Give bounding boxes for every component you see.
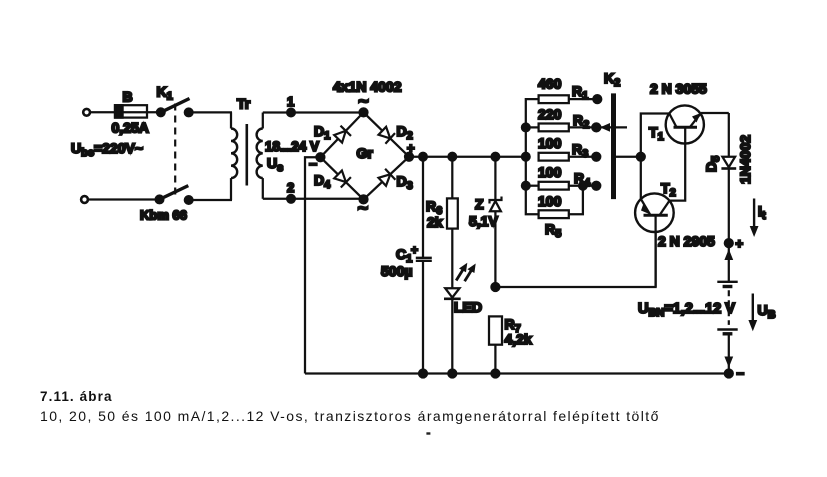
svg-text:100: 100: [538, 193, 562, 209]
resistor R4 100: [526, 164, 597, 190]
wire minus branch down: [305, 157, 320, 373]
svg-text:Kbm 66: Kbm 66: [140, 208, 187, 223]
battery dashed middle: [728, 290, 730, 325]
node bridge left minus: [309, 153, 324, 172]
svg-text:~: ~: [358, 91, 369, 111]
LED: [444, 263, 482, 374]
svg-text:2: 2: [287, 180, 294, 195]
switch K2 wiper arrow: [600, 123, 627, 132]
wire bottom to transformer: [189, 199, 232, 201]
node bridge right plus: [405, 141, 415, 161]
svg-text:+: +: [736, 236, 744, 251]
svg-text:100: 100: [538, 135, 562, 151]
resistor R6: [426, 153, 458, 288]
resistor bank bus: [526, 99, 539, 214]
node bus plus rail: [522, 153, 530, 161]
svg-text:D2: D2: [397, 123, 413, 142]
wire secondary bottom to bridge: [263, 198, 364, 200]
svg-text:1: 1: [287, 94, 294, 109]
wire secondary top to bridge: [263, 111, 364, 113]
node 1: [287, 94, 295, 116]
svg-text:Tr: Tr: [237, 96, 251, 112]
node LED bottom: [448, 370, 456, 378]
svg-text:100: 100: [538, 164, 562, 180]
stray mark: [426, 432, 430, 434]
resistor R3 100: [538, 135, 596, 161]
wire T1 base down: [670, 127, 686, 200]
wire T2 emitter from junction: [640, 157, 642, 199]
svg-text:+: +: [407, 141, 415, 156]
transistor T1: [649, 81, 707, 144]
svg-text:Us: Us: [267, 155, 283, 174]
node input terminal top: [83, 109, 90, 116]
transformer Tr primary: [231, 96, 251, 201]
node Z R7 T2 junction: [491, 283, 499, 291]
node battery plus: [725, 236, 744, 251]
resistor R2 220: [538, 106, 596, 131]
svg-text:0,25A: 0,25A: [112, 120, 149, 136]
wire: [90, 111, 115, 113]
switch K1 bottom pole Kbm66: [140, 186, 193, 223]
battery cell 2: [717, 330, 737, 334]
node input terminal bottom: [81, 196, 88, 203]
diode D3: [379, 169, 413, 192]
svg-text:It: It: [758, 203, 766, 222]
bridge rectifier Gr diamond: [320, 79, 409, 200]
wire with down arrow to minus node: [724, 334, 733, 374]
resistor R5 100: [538, 186, 583, 240]
svg-text:1N4002: 1N4002: [737, 135, 753, 184]
node output junction: [637, 153, 645, 161]
resistor R1 460: [526, 76, 598, 128]
switch K2 bar: [604, 70, 620, 199]
switch gang dashed link: [174, 104, 176, 197]
fuse B: [112, 89, 161, 136]
node bridge top ~: [358, 91, 369, 117]
svg-text:−: −: [737, 366, 745, 381]
diode D4: [314, 171, 351, 192]
svg-text:R5: R5: [545, 221, 561, 240]
svg-text:T1: T1: [649, 124, 664, 143]
node 2: [287, 180, 295, 203]
transformer core: [246, 124, 249, 186]
node R7 bottom: [491, 370, 499, 378]
svg-text:2k: 2k: [427, 214, 443, 230]
svg-text:D4: D4: [314, 172, 331, 191]
svg-text:18...24 V: 18...24 V: [265, 139, 319, 154]
node bus R4: [522, 182, 530, 190]
svg-text:UBN=1,2...12 V: UBN=1,2...12 V: [638, 301, 735, 319]
wire plus rail: [409, 156, 526, 158]
svg-text:D5: D5: [703, 156, 722, 172]
diode D1: [314, 123, 351, 143]
svg-text:220: 220: [538, 106, 562, 122]
svg-text:K2: K2: [604, 70, 620, 89]
wire K2 output: [616, 156, 641, 158]
svg-text:500µ: 500µ: [381, 263, 412, 279]
svg-text:K1: K1: [157, 84, 173, 103]
battery cell 1: [717, 282, 737, 287]
node K2 contact 3: [592, 153, 600, 161]
wire T2 base down: [654, 215, 656, 287]
zener Z: [469, 153, 502, 287]
svg-text:5,1V: 5,1V: [469, 213, 498, 229]
node C1 bottom: [419, 370, 427, 378]
svg-text:D3: D3: [397, 173, 413, 192]
svg-text:Ube=220V~: Ube=220V~: [71, 140, 143, 159]
svg-text:10, 20, 50 és 100 mA/1,2...12: 10, 20, 50 és 100 mA/1,2...12 V-os, tran…: [40, 408, 660, 424]
node K2 contact 4: [592, 182, 600, 190]
svg-text:460: 460: [538, 76, 562, 92]
svg-text:LED: LED: [454, 299, 482, 315]
wire T2 base link: [495, 232, 655, 287]
svg-text:B: B: [123, 89, 133, 105]
svg-text:7.11. ábra: 7.11. ábra: [40, 389, 113, 404]
wire bottom rail: [305, 372, 729, 374]
node bus R2: [522, 124, 530, 132]
svg-text:−: −: [309, 156, 317, 172]
transformer Tr secondary: [257, 113, 319, 199]
node K2 contact 1: [593, 95, 601, 103]
svg-text:4,2k: 4,2k: [505, 331, 532, 347]
diode D5: [703, 113, 753, 243]
svg-text:Z: Z: [475, 196, 484, 212]
transistor T2: [635, 180, 715, 249]
arrow It: [750, 199, 766, 238]
node bridge bottom ~: [358, 195, 369, 217]
svg-text:2 N 3055: 2 N 3055: [650, 81, 707, 97]
node battery minus: [725, 366, 745, 381]
diode D2: [379, 123, 413, 144]
arrow UB: [748, 294, 775, 332]
wire top to transformer: [189, 111, 232, 113]
svg-text:~: ~: [358, 198, 369, 218]
wire T1 emitter right: [701, 112, 729, 114]
wire with up arrow to battery: [724, 243, 733, 282]
node R4 R5 junction: [579, 182, 587, 190]
svg-text:UB: UB: [758, 302, 776, 321]
resistor R7: [489, 316, 532, 374]
node K2 contact 2: [592, 123, 600, 131]
wire T1 collector left: [641, 114, 670, 157]
wire: [88, 198, 159, 200]
svg-text:2 N 2905: 2 N 2905: [658, 233, 715, 249]
capacitor C1: [381, 153, 432, 374]
svg-text:Gr: Gr: [357, 145, 374, 161]
switch K1 top pole: [157, 84, 193, 117]
